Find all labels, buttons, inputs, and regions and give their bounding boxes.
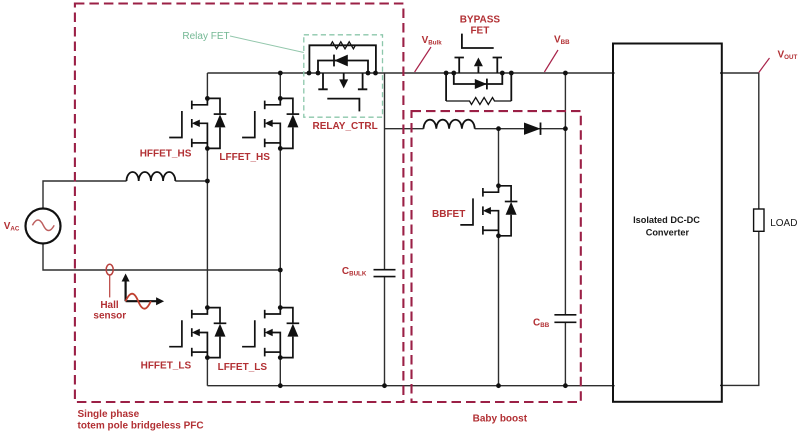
- svg-text:sensor: sensor: [93, 310, 126, 321]
- svg-text:Single phase: Single phase: [78, 409, 140, 420]
- svg-text:BBFET: BBFET: [432, 209, 465, 220]
- svg-text:VAC: VAC: [4, 221, 20, 233]
- svg-text:Isolated DC-DC: Isolated DC-DC: [633, 215, 700, 225]
- svg-text:HFFET_LS: HFFET_LS: [141, 360, 192, 371]
- svg-text:VBB: VBB: [554, 34, 570, 46]
- svg-text:Relay FET: Relay FET: [182, 31, 229, 42]
- svg-text:VOUT: VOUT: [778, 49, 798, 61]
- svg-text:CBB: CBB: [533, 318, 550, 330]
- svg-text:Converter: Converter: [646, 227, 690, 237]
- svg-text:Hall: Hall: [100, 300, 119, 311]
- svg-text:FET: FET: [470, 26, 489, 37]
- svg-text:BYPASS: BYPASS: [460, 15, 501, 26]
- svg-text:totem pole bridgeless PFC: totem pole bridgeless PFC: [78, 421, 204, 432]
- svg-text:RELAY_CTRL: RELAY_CTRL: [313, 121, 378, 132]
- svg-text:LFFET_HS: LFFET_HS: [219, 152, 270, 163]
- svg-text:HFFET_HS: HFFET_HS: [140, 148, 192, 159]
- svg-text:LOAD: LOAD: [770, 218, 797, 229]
- svg-text:LFFET_LS: LFFET_LS: [218, 362, 268, 373]
- svg-text:VBulk: VBulk: [422, 35, 443, 47]
- svg-text:CBULK: CBULK: [342, 266, 367, 278]
- svg-text:Baby boost: Baby boost: [473, 414, 528, 425]
